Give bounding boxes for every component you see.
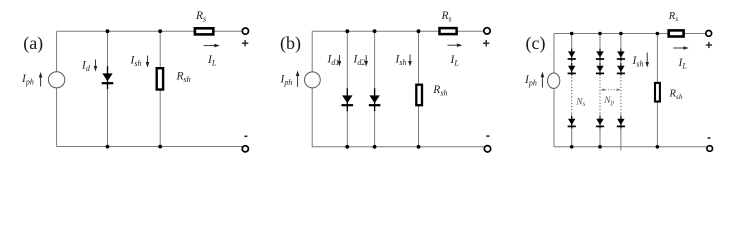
diode branch1-2 (c) [568,63,576,76]
wire left lower (c) [553,88,555,146]
diode branch3-1 (c) [617,49,625,62]
wire branch1 bottom (c) [571,114,573,147]
node diode top (a) [106,29,110,33]
wire branch2 bottom (c) [599,114,601,147]
current source circle (c) [548,73,560,88]
wire shunt branch (c) [656,34,658,147]
svg-text:Ish: Ish [395,54,407,68]
svg-text:Ish: Ish [632,55,644,69]
arrow IL (a) [204,44,220,48]
arrow Id1 down (b) [338,55,342,67]
svg-text:IL: IL [207,54,217,68]
node diode bottom (a) [106,145,110,149]
wire top (a) [57,30,242,32]
wire bottom (c) [554,146,707,148]
wire shunt branch (a) [159,31,161,146]
wire top (b) [312,30,484,32]
terminal plus (b) [484,28,490,34]
diode branch2-1 (c) [596,49,604,62]
svg-text:Rsh: Rsh [669,89,683,101]
diode D2 (b) [369,88,381,111]
terminal minus (c) [707,146,713,152]
wire diode branch (a) [107,31,109,146]
terminal minus (a) [242,146,248,152]
svg-text:Rs: Rs [441,10,452,24]
terminal plus (a) [242,28,248,34]
diode branch1-3 (c) [568,116,576,129]
wire branch3 dotted (c) [620,74,622,114]
wire left (a) [56,31,58,72]
wire diode2 branch (b) [374,31,376,147]
svg-text:Rs: Rs [668,11,678,23]
wire branch2 dotted (c) [599,74,601,114]
arrow Id2 down (b) [364,55,368,67]
wire left (c) [553,34,555,74]
resistor Rs (a) [195,28,213,34]
node diode1 bottom (b) [345,145,349,149]
diode D (a) [102,66,114,89]
node branch1 top (c) [570,32,574,36]
svg-text:Rsh: Rsh [176,71,191,85]
svg-text:Id: Id [81,60,91,74]
wire diode1 branch (b) [346,31,348,147]
diode branch2-2 (c) [596,63,604,76]
svg-text:Rs: Rs [195,10,206,24]
node shunt top (b) [417,29,421,33]
svg-text:Iph: Iph [21,73,34,87]
svg-text:(b): (b) [280,33,301,54]
node shunt top (a) [158,29,162,33]
wire branch1 dotted (c) [571,74,573,114]
resistor Rsh (c) [655,83,660,102]
arrow Ish down (b) [408,55,412,67]
svg-text:Id2: Id2 [353,54,366,68]
wire branch1 top (c) [571,34,573,75]
terminal plus (c) [706,31,712,37]
arrow Id down (a) [94,60,98,72]
node shunt bottom (a) [158,145,162,149]
wire bottom (b) [312,146,484,148]
wire shunt branch (b) [418,31,420,147]
node diode2 bottom (b) [373,145,377,149]
label minus sign (b) [486,135,489,137]
arrow Np double dotted (c) [601,89,621,92]
current source circle (b) [305,72,321,88]
arrow Ish down (a) [146,56,150,68]
node diode2 top (b) [373,29,377,33]
wire top (c) [554,33,706,35]
arrow Ish down (c) [645,53,649,68]
arrow Iph up (b) [296,71,300,87]
svg-text:Ns: Ns [575,97,585,108]
arrow Iph up (c) [541,72,545,88]
diode branch2-3 (c) [596,116,604,129]
node branch1 bottom (c) [570,145,574,149]
terminal minus (b) [484,146,490,152]
wire branch2 top (c) [599,34,601,75]
node shunt bottom (b) [417,145,421,149]
node branch2 top (c) [598,32,602,36]
arrow IL (c) [674,46,689,50]
svg-text:Ish: Ish [130,55,142,69]
label plus sign (a) [242,40,248,46]
diode branch3-3 (c) [617,116,625,129]
svg-text:(c): (c) [526,33,546,54]
wire left (b) [311,31,313,72]
node diode1 top (b) [345,29,349,33]
svg-text:Id1: Id1 [327,54,340,68]
svg-text:(a): (a) [23,33,43,54]
resistor Rs (c) [669,30,684,36]
resistor Rsh (b) [416,85,422,106]
node branch2 bottom (c) [598,145,602,149]
svg-text:Np: Np [603,96,614,107]
diode branch1-1 (c) [568,49,576,62]
diode branch3-2 (c) [617,63,625,76]
wire left lower (a) [56,88,58,147]
resistor Rsh (a) [157,68,163,89]
wire branch3 bottom (c) [620,114,622,151]
label plus sign (c) [706,42,712,48]
svg-text:IL: IL [450,54,460,68]
label minus sign (c) [708,137,711,139]
svg-text:Iph: Iph [524,74,537,88]
node branch3 top (c) [619,32,623,36]
diode D1 (b) [342,88,354,111]
node shunt top (c) [656,32,660,36]
label plus sign (b) [483,40,489,46]
current source circle (a) [48,72,64,88]
wire bottom (a) [57,146,242,148]
wire branch3 top (c) [620,34,622,75]
arrow Iph up (a) [39,72,43,87]
arrow IL (b) [448,43,463,47]
svg-text:IL: IL [678,57,688,71]
svg-text:Rsh: Rsh [432,84,447,98]
node shunt bottom (c) [656,145,660,149]
svg-text:Iph: Iph [280,74,293,88]
wire left lower (b) [311,88,313,147]
label minus sign (a) [244,135,247,137]
resistor Rs (b) [440,28,457,34]
